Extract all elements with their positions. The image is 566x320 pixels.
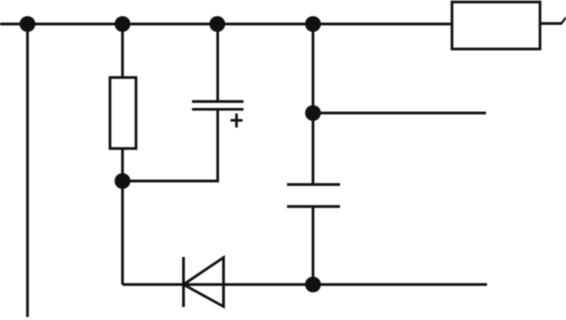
wire vertical from node E to diode row — [121, 181, 124, 285]
wire left vertical drop — [26, 24, 29, 317]
node junction dot B — [115, 16, 131, 32]
capacitor C1 plus sign — [231, 114, 243, 128]
wire top rail right segment — [540, 22, 561, 25]
node junction dot A — [20, 16, 36, 32]
wire top rail left segment — [0, 23, 452, 26]
node junction dot D — [305, 16, 321, 32]
capacitor C2 plates — [287, 185, 340, 207]
resistor R1 (horizontal, top right) — [452, 2, 540, 49]
resistor R2 (vertical) — [110, 78, 136, 149]
capacitor C2 lower lead — [312, 207, 315, 285]
node junction dot G — [305, 277, 321, 293]
wire middle right horizontal — [313, 112, 486, 115]
wire C1 lower lead to node E — [123, 109, 218, 181]
node junction dot F — [305, 105, 321, 121]
wire resistor branch lower lead — [121, 149, 124, 182]
capacitor C1 upper lead — [216, 24, 219, 102]
wire bottom horizontal through diode to right end — [123, 283, 488, 286]
capacitor C1 (polarized) plates — [192, 102, 244, 110]
node junction dot E — [115, 173, 131, 189]
wire end tick top right — [561, 18, 566, 25]
wire resistor branch upper lead — [121, 24, 124, 78]
wire right branch upper — [312, 24, 315, 113]
node junction dot C — [209, 16, 225, 32]
capacitor C2 upper lead — [312, 113, 315, 185]
diode D1 — [184, 257, 224, 307]
